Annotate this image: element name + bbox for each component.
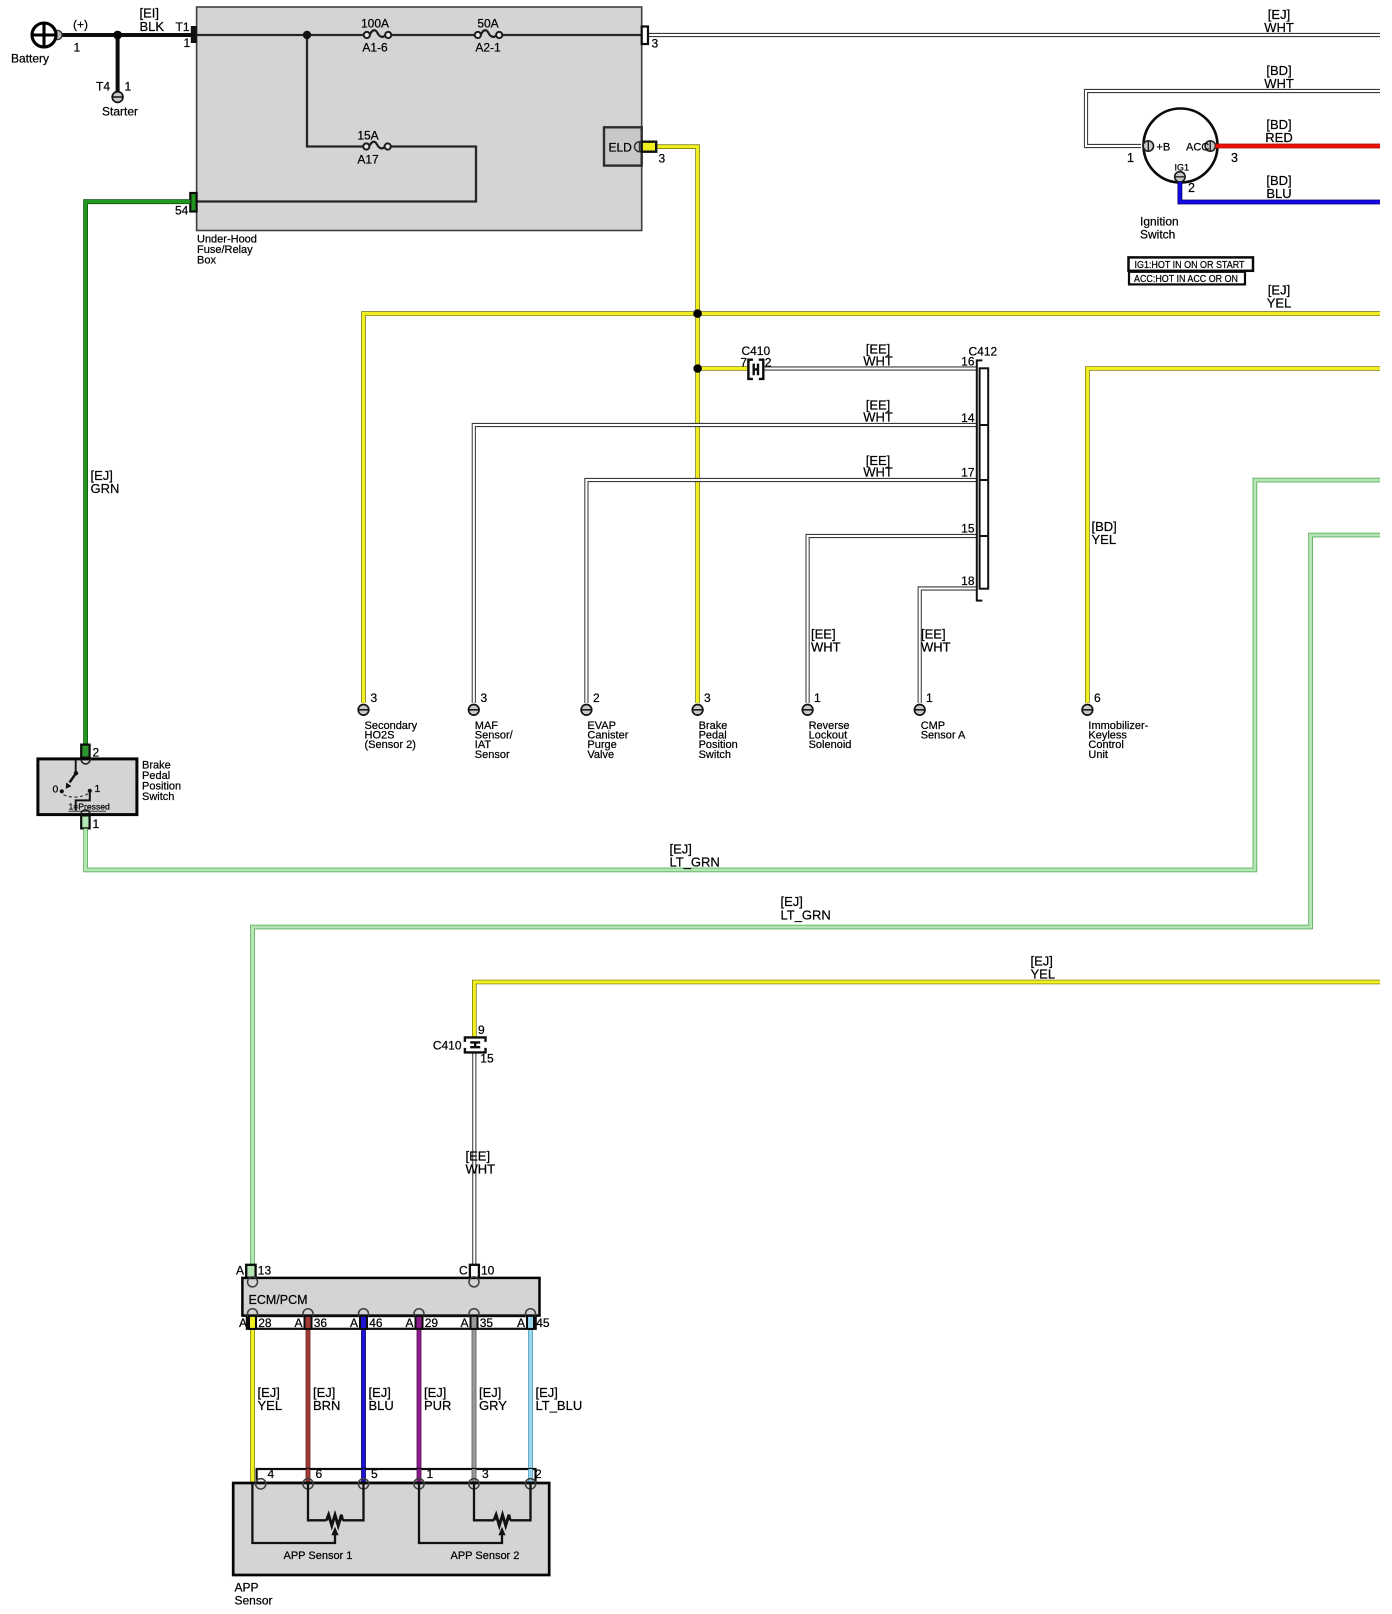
svg-text:6: 6 bbox=[1094, 691, 1101, 705]
svg-text:APP Sensor 1: APP Sensor 1 bbox=[284, 1550, 353, 1562]
svg-text:A: A bbox=[460, 1316, 468, 1330]
junction: internal bus split bbox=[303, 31, 311, 39]
svg-text:WHT: WHT bbox=[863, 353, 893, 368]
svg-text:1: 1 bbox=[125, 80, 132, 94]
svg-text:WHT: WHT bbox=[921, 640, 951, 655]
svg-text:3: 3 bbox=[371, 691, 378, 705]
starter terminal T4 pin 1 bbox=[96, 80, 138, 119]
wire: [BD] YEL immobilizer vertical and horizontal to right edge bbox=[1087, 369, 1380, 704]
svg-text:Sensor: Sensor bbox=[235, 1594, 273, 1608]
svg-text:ACC: ACC bbox=[1186, 142, 1209, 154]
ECM/PCM pin C10 connector bbox=[470, 1265, 479, 1278]
connector pin 3 (ELD) at fuse box edge bbox=[642, 142, 657, 152]
svg-text:IG1:HOT IN ON OR START: IG1:HOT IN ON OR START bbox=[1135, 260, 1246, 271]
wire: [EE] WHT from C412 pin 18 down to CMP sensor A bbox=[920, 589, 977, 704]
svg-text:2: 2 bbox=[593, 691, 600, 705]
svg-text:36: 36 bbox=[314, 1316, 328, 1330]
terminal: reverse lockout solenoid pin 1 bbox=[802, 691, 851, 751]
svg-text:28: 28 bbox=[258, 1316, 272, 1330]
svg-text:Battery: Battery bbox=[11, 52, 49, 66]
APP sensor connector row bbox=[257, 1469, 536, 1483]
svg-text:15: 15 bbox=[961, 522, 975, 536]
wire: [EJ] BRN ECM A36 to APP pin 6 bbox=[306, 1318, 311, 1478]
svg-text:YEL: YEL bbox=[1092, 532, 1117, 547]
wire: [EE] WHT C410 to C412 pin 16 bbox=[763, 366, 976, 370]
svg-text:7: 7 bbox=[740, 356, 747, 370]
pin A28 bbox=[249, 1316, 256, 1329]
brake pedal position switch body bbox=[38, 759, 137, 815]
svg-text:1=Pressed: 1=Pressed bbox=[69, 802, 111, 812]
svg-text:1: 1 bbox=[184, 36, 191, 50]
svg-text:1: 1 bbox=[814, 691, 821, 705]
junction: yellow bus at C410 branch bbox=[693, 364, 702, 373]
ECM/PCM pin circles bottom bbox=[248, 1309, 536, 1319]
svg-text:BLU: BLU bbox=[369, 1398, 394, 1413]
wire: [EJ] YEL from C410 to right edge (lower run) bbox=[474, 982, 1380, 1037]
svg-text:WHT: WHT bbox=[466, 1162, 496, 1177]
svg-text:A: A bbox=[239, 1316, 247, 1330]
svg-text:6: 6 bbox=[316, 1467, 323, 1481]
wire: [EJ] BLU ECM A46 to APP pin 5 bbox=[361, 1318, 366, 1478]
svg-text:WHT: WHT bbox=[1264, 76, 1294, 91]
fuse 100A A1-6 bbox=[361, 17, 391, 55]
wire: [EJ] LT_GRN from ECM A13 to right edge bbox=[253, 535, 1381, 1264]
svg-text:YEL: YEL bbox=[1031, 967, 1056, 982]
svg-text:A: A bbox=[517, 1316, 525, 1330]
svg-text:APP: APP bbox=[235, 1581, 259, 1595]
wire: [EJ] GRY ECM A35 to APP pin 3 bbox=[472, 1318, 477, 1478]
svg-text:T4: T4 bbox=[96, 80, 110, 94]
svg-text:14: 14 bbox=[961, 411, 975, 425]
svg-text:+B: +B bbox=[1156, 142, 1170, 154]
battery G1 symbol bbox=[11, 18, 88, 66]
svg-text:A: A bbox=[405, 1316, 413, 1330]
svg-text:Switch: Switch bbox=[142, 791, 174, 803]
svg-text:BLK: BLK bbox=[140, 19, 165, 34]
terminal T1 at fuse box pin 1 bbox=[191, 26, 197, 43]
svg-text:A1-6: A1-6 bbox=[362, 41, 388, 55]
svg-text:15A: 15A bbox=[357, 129, 378, 143]
wire segments crossing APP connector row bbox=[308, 1469, 531, 1482]
svg-text:BLU: BLU bbox=[1266, 186, 1291, 201]
svg-text:WHT: WHT bbox=[1264, 20, 1294, 35]
connector C410 pins 7/2 symbol bbox=[748, 360, 763, 379]
label: Under-Hood Fuse/Relay Box bbox=[197, 234, 257, 267]
svg-text:3: 3 bbox=[481, 691, 488, 705]
svg-text:1: 1 bbox=[427, 1467, 434, 1481]
svg-text:YEL: YEL bbox=[1267, 296, 1292, 311]
svg-text:A: A bbox=[294, 1316, 302, 1330]
svg-text:PUR: PUR bbox=[424, 1398, 451, 1413]
svg-text:Ignition: Ignition bbox=[1140, 215, 1179, 229]
pin +B (1) bbox=[1143, 141, 1153, 151]
note box: ACC HOT IN ACC OR ON bbox=[1129, 272, 1245, 285]
wire: fuse box internal bus (battery feed) bbox=[197, 35, 642, 202]
svg-text:ELD: ELD bbox=[609, 141, 633, 155]
APP pin circles bbox=[256, 1479, 536, 1489]
wire: ELD pin 3 yellow feed down to brake pedal position switch stub bbox=[656, 147, 698, 703]
svg-text:Switch: Switch bbox=[699, 749, 731, 761]
svg-text:Valve: Valve bbox=[587, 749, 614, 761]
svg-text:LT_GRN: LT_GRN bbox=[670, 855, 720, 870]
fuse 15A A17 bbox=[357, 129, 390, 167]
wire: [BD] WHT from right edge to ignition switch +B bbox=[1086, 91, 1380, 146]
connector C412 (multi-pin) bbox=[977, 360, 983, 602]
terminal: immobilizer-keyless control unit pin 6 bbox=[1082, 691, 1149, 761]
svg-text:ECM/PCM: ECM/PCM bbox=[249, 1293, 308, 1307]
svg-text:Unit: Unit bbox=[1088, 749, 1108, 761]
terminal: Secondary HO2S pin 3 bbox=[358, 691, 417, 751]
terminal: EVAP canister purge valve pin 2 bbox=[581, 691, 629, 761]
pin A29 bbox=[416, 1316, 423, 1329]
svg-text:5: 5 bbox=[371, 1467, 378, 1481]
wire: [EE] WHT from C412 pin 15 down to reverse lockout solenoid bbox=[808, 536, 977, 703]
wire: [EE] WHT from C410 to ECM C10 bbox=[472, 1052, 476, 1264]
terminal: brake pedal position switch stub pin 3 bbox=[692, 691, 737, 761]
svg-text:GRY: GRY bbox=[479, 1398, 507, 1413]
terminal: CMP sensor A pin 1 bbox=[914, 691, 966, 742]
pin IG1 (2) bbox=[1175, 172, 1185, 182]
svg-text:APP Sensor 2: APP Sensor 2 bbox=[451, 1550, 520, 1562]
wire: [EJ] GRN from fuse box pin 54 to BPPS pin 2 bbox=[86, 202, 191, 745]
svg-text:ACC:HOT IN ACC OR ON: ACC:HOT IN ACC OR ON bbox=[1134, 274, 1238, 285]
pin A35 bbox=[471, 1316, 478, 1329]
svg-text:Sensor A: Sensor A bbox=[921, 730, 966, 742]
svg-text:1: 1 bbox=[93, 817, 100, 831]
pin ACC (3) bbox=[1205, 141, 1215, 151]
svg-text:WHT: WHT bbox=[863, 409, 893, 424]
BPPS pin 2 connector bbox=[81, 745, 89, 758]
ECM/PCM body bbox=[242, 1278, 539, 1316]
svg-text:29: 29 bbox=[425, 1316, 439, 1330]
pin A45 bbox=[527, 1316, 534, 1329]
wire: starter branch bbox=[116, 35, 120, 92]
terminal: MAF/IAT sensor pin 3 bbox=[469, 691, 514, 761]
svg-text:A2-1: A2-1 bbox=[475, 41, 501, 55]
svg-text:WHT: WHT bbox=[811, 640, 841, 655]
fuse/relay box U100 body bbox=[197, 7, 642, 231]
pin A46 bbox=[360, 1316, 367, 1329]
svg-text:RED: RED bbox=[1265, 130, 1292, 145]
wire: battery positive cable [EI] BLK bbox=[57, 33, 191, 37]
ignition switch body bbox=[1144, 109, 1218, 183]
svg-text:YEL: YEL bbox=[258, 1398, 283, 1413]
wire: [BD] RED from ACC to right edge bbox=[1216, 144, 1381, 149]
svg-text:4: 4 bbox=[268, 1467, 275, 1481]
junction: yellow bus at YEL horizontal bbox=[693, 309, 702, 318]
svg-text:Starter: Starter bbox=[102, 105, 138, 119]
wire: [EJ] YEL ECM A28 to APP pin 4 bbox=[250, 1318, 255, 1483]
svg-text:3: 3 bbox=[659, 152, 666, 166]
svg-text:50A: 50A bbox=[477, 17, 498, 31]
svg-text:45: 45 bbox=[536, 1316, 550, 1330]
connector pin 3 at fuse box right edge bbox=[642, 27, 648, 45]
svg-text:35: 35 bbox=[480, 1316, 494, 1330]
svg-text:Switch: Switch bbox=[1140, 228, 1175, 242]
APP sensor 1 potentiometer bbox=[252, 1483, 363, 1543]
svg-text:13: 13 bbox=[258, 1264, 272, 1278]
fuse 50A A2-1 bbox=[475, 17, 503, 55]
svg-text:IG1: IG1 bbox=[1175, 163, 1190, 173]
svg-text:46: 46 bbox=[369, 1316, 383, 1330]
ECM/PCM lower pin row bbox=[247, 1316, 536, 1329]
svg-text:3: 3 bbox=[652, 37, 659, 51]
svg-text:1: 1 bbox=[926, 691, 933, 705]
svg-text:10: 10 bbox=[481, 1264, 495, 1278]
svg-text:BRN: BRN bbox=[313, 1398, 340, 1413]
ELD unit inside fuse box bbox=[604, 127, 645, 165]
svg-text:C410: C410 bbox=[433, 1039, 462, 1053]
svg-text:A: A bbox=[350, 1316, 358, 1330]
BPPS pin 1 connector bbox=[81, 815, 89, 828]
svg-text:3: 3 bbox=[1231, 151, 1238, 165]
wire: [EJ] YEL main horizontal to right edge with drop to Secondary HO2S bbox=[364, 314, 1381, 703]
APP sensor body bbox=[233, 1483, 549, 1575]
APP sensor 2 potentiometer bbox=[419, 1483, 531, 1543]
svg-text:54: 54 bbox=[175, 204, 189, 218]
wire: [EE] WHT to C412 pin 14 with drop to MAF/IAT sensor bbox=[474, 425, 977, 703]
svg-text:100A: 100A bbox=[361, 17, 389, 31]
svg-text:9: 9 bbox=[478, 1023, 485, 1037]
BPPS internal switch bbox=[53, 759, 111, 814]
svg-text:GRN: GRN bbox=[91, 481, 120, 496]
svg-text:WHT: WHT bbox=[863, 465, 893, 480]
svg-text:18: 18 bbox=[961, 574, 975, 588]
note box: IG1 HOT IN ON OR START bbox=[1129, 257, 1254, 270]
svg-text:(+): (+) bbox=[73, 18, 88, 32]
svg-text:1: 1 bbox=[1127, 151, 1134, 165]
wire: yellow branch to C410 bbox=[698, 366, 749, 371]
svg-text:Solenoid: Solenoid bbox=[809, 739, 852, 751]
svg-text:0: 0 bbox=[53, 785, 59, 796]
svg-text:1: 1 bbox=[95, 784, 101, 795]
junction: battery/starter node bbox=[113, 31, 122, 40]
wire: [BD] BLU from IG1 to right edge bbox=[1180, 182, 1380, 202]
svg-text:2: 2 bbox=[765, 356, 772, 370]
svg-text:A17: A17 bbox=[357, 153, 379, 167]
svg-text:1: 1 bbox=[74, 41, 81, 55]
svg-text:17: 17 bbox=[961, 466, 975, 480]
svg-text:T1: T1 bbox=[176, 20, 190, 34]
svg-text:LT_GRN: LT_GRN bbox=[781, 907, 831, 922]
pin A36 bbox=[305, 1316, 312, 1329]
wire: [EE] WHT to C412 pin 17 with drop to EVAP valve bbox=[586, 480, 976, 703]
ECM/PCM pin A13 connector bbox=[246, 1265, 255, 1278]
wire: [EJ] WHT from fuse box pin 3 to right edge bbox=[648, 33, 1380, 37]
svg-text:2: 2 bbox=[1188, 181, 1195, 195]
pin 54 connector of fuse box bbox=[190, 193, 196, 212]
svg-text:3: 3 bbox=[482, 1467, 489, 1481]
svg-text:15: 15 bbox=[480, 1052, 494, 1066]
svg-text:A: A bbox=[236, 1264, 244, 1278]
svg-text:Box: Box bbox=[197, 255, 216, 267]
label: Brake Pedal Position Switch bbox=[142, 760, 181, 804]
wire: [EJ] LT_BLU ECM A45 to APP pin 2 bbox=[528, 1318, 533, 1478]
wire: [EJ] LT_GRN from BPPS pin 1 to right edge bbox=[86, 480, 1380, 870]
svg-text:LT_BLU: LT_BLU bbox=[536, 1398, 583, 1413]
wire: [EJ] PUR ECM A29 to APP pin 1 bbox=[417, 1318, 422, 1478]
svg-text:3: 3 bbox=[704, 691, 711, 705]
svg-text:Sensor: Sensor bbox=[475, 749, 510, 761]
svg-text:C: C bbox=[459, 1264, 468, 1278]
svg-text:16: 16 bbox=[961, 355, 975, 369]
svg-text:(Sensor 2): (Sensor 2) bbox=[365, 739, 416, 751]
ECM/PCM pin circles top bbox=[248, 1277, 258, 1287]
connector C410 pins 9/15 symbol bbox=[465, 1037, 486, 1052]
svg-text:2: 2 bbox=[535, 1467, 542, 1481]
